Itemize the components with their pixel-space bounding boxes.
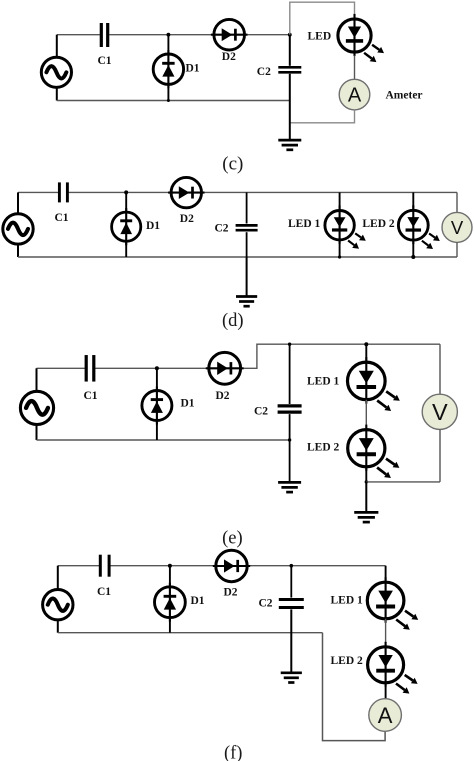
node D1 bottom junction (c) (167, 99, 170, 102)
svg-text:C2: C2 (257, 66, 271, 78)
svg-text:LED 2: LED 2 (362, 218, 395, 230)
wire LED1 bottom stem (d) (339, 240, 341, 257)
wire C2 lower stem (f) (290, 609, 292, 672)
LED 1 (f) (367, 582, 404, 619)
capacitor C1 (e) (85, 355, 88, 382)
svg-text:A: A (378, 703, 393, 728)
svg-text:LED 2: LED 2 (331, 655, 364, 667)
wire bottom rail (f) (58, 632, 323, 634)
node C2 top junction (c) (288, 33, 292, 37)
voltmeter V (d) (442, 212, 472, 242)
diode D2 (d) (171, 177, 201, 207)
wire AC top lead (e) (36, 368, 38, 391)
node C2 top junction (e) (288, 343, 291, 346)
diode D1 (d) (112, 212, 141, 241)
wire top rail seg3 (d) (202, 191, 458, 193)
wire AC bottom lead (d) (17, 244, 19, 258)
svg-text:LED 1: LED 1 (331, 595, 364, 607)
wire ground stem (e) (365, 482, 367, 512)
diode D2 (f) (216, 550, 247, 581)
svg-text:D2: D2 (224, 587, 238, 599)
capacitor C2 (e) (278, 404, 302, 407)
wire top rail seg3 (f) (247, 565, 385, 567)
AC source (d) (3, 214, 33, 244)
wire LED2 bottom to voltmeter (e) (366, 481, 440, 483)
ground (d) (236, 295, 257, 298)
wire AC top lead (f) (57, 566, 59, 591)
wire D1 bottom stem (f) (169, 618, 171, 633)
svg-text:D1: D1 (181, 398, 195, 410)
circuit (c) (41, 2, 422, 174)
ammeter A (f) (369, 699, 402, 732)
wire C2 upper stem (d) (246, 192, 248, 223)
svg-text:(f): (f) (224, 744, 242, 761)
wire bottom rail (e) (37, 439, 290, 441)
wire D1 top stem (c) (167, 35, 169, 54)
wire D1 bottom stem (d) (125, 241, 127, 257)
LED 1 (d) (325, 211, 354, 240)
svg-text:C1: C1 (97, 586, 111, 598)
wire top rail seg1 (d) (18, 191, 58, 193)
wire top rail seg2 (d) (68, 191, 171, 193)
svg-text:C2: C2 (259, 598, 273, 610)
wire top rail left (c) (57, 34, 100, 36)
capacitor C1 (c) (100, 23, 103, 47)
wire top rail seg2 (e) (94, 367, 209, 369)
diode D2 (e) (209, 352, 241, 384)
wire C2 lower stem (d) (246, 232, 248, 257)
node D1 top junction (d) (124, 190, 128, 194)
node LED2 bottom junction (d) (411, 255, 415, 259)
wire D1 bottom stem (e) (156, 421, 158, 441)
svg-text:D1: D1 (191, 595, 205, 607)
wire D1 top stem (e) (156, 368, 158, 391)
wire top rail seg2 (f) (109, 565, 216, 567)
wire AC bottom lead (f) (57, 619, 59, 633)
svg-text:LED 1: LED 1 (307, 376, 340, 388)
wire bottom rail (c) (57, 100, 290, 102)
node D1 top junction (c) (167, 33, 171, 37)
wire D1 bottom stem (c) (167, 84, 169, 100)
wire LED2 bottom stem (e) (365, 467, 367, 482)
wire C2 branch upper stem (c) (289, 35, 291, 66)
wire between LEDs (f) (385, 619, 387, 647)
diode D1 (c) (153, 54, 183, 84)
svg-text:(c): (c) (222, 153, 243, 174)
capacitor C2 (f) (279, 598, 304, 601)
svg-text:(d): (d) (222, 311, 244, 331)
wire top rail mid (c) (109, 34, 214, 36)
capacitor C1 (f) (99, 555, 102, 577)
voltmeter V (e) (422, 394, 457, 429)
wire top rail seg1 (e) (37, 367, 87, 369)
ground below C2 (e) (278, 481, 301, 484)
svg-text:Ameter: Ameter (386, 90, 423, 102)
LED 2 (e) (348, 430, 385, 467)
wire C2 branch lower stem (c) (289, 74, 291, 140)
wire top bypass to LED (c) (290, 2, 355, 35)
node LED chain top junction (e) (364, 342, 368, 346)
node C2 bottom rail junction (e) (288, 438, 291, 441)
AC source (f) (43, 590, 73, 620)
svg-text:C2: C2 (215, 223, 229, 235)
ground below C2 (f) (281, 671, 302, 674)
LED 2 (d) (398, 210, 428, 240)
wire LED2 bottom stem (d) (412, 240, 414, 257)
node D1 top junction (f) (168, 564, 172, 568)
node D1 top junction (e) (155, 366, 159, 370)
svg-text:D2: D2 (222, 51, 236, 63)
LED (c) (338, 19, 371, 52)
wire voltmeter bottom lead (d) (456, 242, 458, 257)
svg-text:V: V (432, 399, 448, 425)
ground (c) (278, 139, 301, 142)
svg-text:D2: D2 (180, 213, 194, 225)
svg-text:C1: C1 (55, 212, 69, 224)
capacitor C2 (d) (236, 224, 258, 227)
AC source (e) (20, 391, 53, 424)
wire D1 top stem (f) (169, 566, 171, 587)
wire D1 top stem (d) (125, 192, 127, 212)
svg-text:LED: LED (308, 31, 332, 43)
svg-text:A: A (348, 85, 362, 107)
diode D1 (f) (155, 587, 186, 618)
wire C2 lower stem (e) (289, 414, 291, 482)
wire LED1 top stem (f) (385, 566, 387, 583)
wire LED2 top stem (d) (412, 192, 414, 210)
svg-text:D2: D2 (216, 390, 230, 402)
wire voltmeter bottom lead (e) (439, 429, 441, 482)
circuit (e) (20, 342, 457, 548)
wire top rail right of D2 (c) (245, 34, 290, 36)
wire C2 upper stem (f) (290, 566, 292, 598)
wire top rail seg1 (f) (58, 565, 100, 567)
node LED2 bottom junction (e) (365, 480, 368, 483)
wire voltmeter top lead (e) (439, 344, 441, 394)
LED1 top stem (d) (339, 192, 341, 210)
wire bottom rail (d) (18, 256, 457, 258)
svg-text:C1: C1 (84, 390, 98, 402)
wire ammeter bottom to ground branch (c) (290, 110, 355, 123)
ground below LED2 (e) (354, 511, 378, 514)
wire LED1 top stem (e) (365, 344, 367, 362)
capacitor C1 (d) (58, 182, 61, 202)
diode D1 (e) (142, 391, 172, 421)
wire bottom path to ammeter (f) (323, 633, 386, 741)
svg-text:D1: D1 (186, 63, 200, 75)
node C2 top junction (f) (290, 564, 294, 568)
circuit (f) (43, 550, 419, 761)
wire AC top lead (c) (56, 35, 58, 58)
diode D2 (c) (214, 19, 245, 50)
wire ground stem (d) (246, 257, 248, 296)
svg-text:C2: C2 (254, 406, 268, 418)
wire AC top lead (d) (17, 192, 19, 214)
ammeter A (c) (339, 79, 370, 110)
svg-text:C1: C1 (98, 55, 112, 67)
svg-text:LED 1: LED 1 (288, 218, 321, 230)
wire D2 to corner (e) (241, 344, 440, 368)
circuit (d) (3, 177, 472, 331)
svg-text:V: V (451, 217, 464, 238)
wire between LEDs (e) (365, 400, 367, 430)
svg-text:LED 2: LED 2 (307, 442, 340, 454)
wire AC bottom lead (e) (36, 424, 38, 440)
node LED1 bottom junction (d) (338, 255, 341, 258)
svg-text:D1: D1 (146, 220, 160, 232)
wire voltmeter top lead (d) (456, 192, 458, 212)
svg-text:(e): (e) (222, 529, 243, 549)
wire LED2 to ammeter (f) (385, 683, 387, 699)
LED 1 (e) (348, 362, 386, 400)
AC source (c) (41, 57, 71, 87)
wire AC bottom lead (c) (56, 87, 58, 101)
wire LED to ammeter (c) (354, 56, 356, 80)
wire C2 upper stem (e) (289, 344, 291, 404)
LED 2 (f) (368, 647, 404, 683)
capacitor C2 (c) (278, 66, 301, 69)
